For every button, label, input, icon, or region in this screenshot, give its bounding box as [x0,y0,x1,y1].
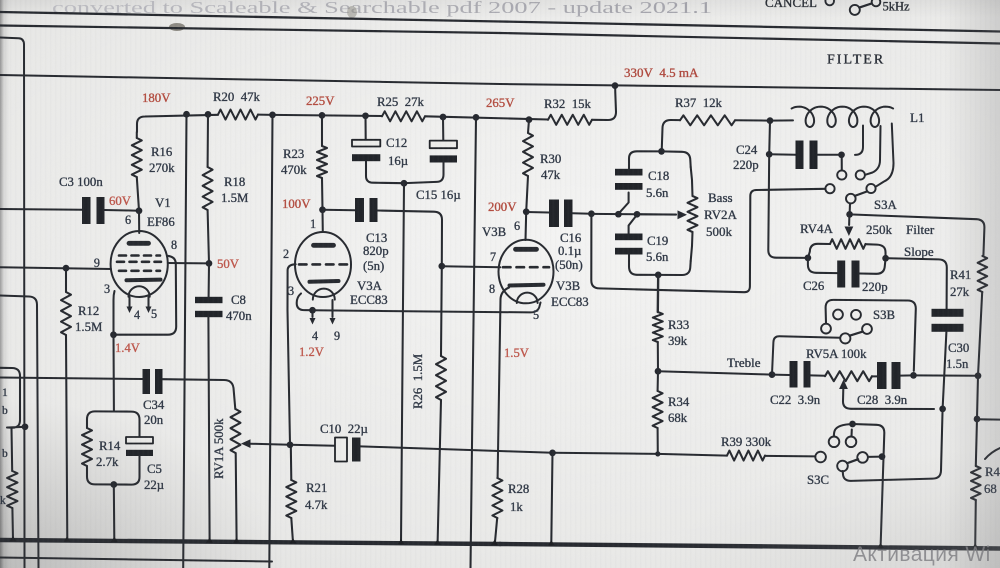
wire wiper line [591,213,676,216]
pin 4 of V3A heater [311,310,313,317]
resistor R21 [290,445,293,480]
resistor R25 [382,111,425,121]
resistor R39 [765,455,815,458]
wire C18 top [629,151,662,169]
wire S3C common arc to contact 1 [834,424,853,437]
RV2A wiper arrow [637,213,676,215]
V3B heater arc [517,293,538,303]
node 330V junction [612,82,619,89]
resistor R37 left wire [662,120,680,151]
capacitor C8 [208,263,210,297]
wire S3B pole to treble node [772,336,840,374]
switch S3B contact 1 [833,310,843,320]
wire long vertical feed x476 [471,117,477,568]
wire L1 end to S3A [876,124,893,187]
wire RV4A right to C30 [886,258,947,309]
node C16 output junction [588,210,595,217]
pin 9 of V3A heater [331,300,333,317]
V3B anode electrode [516,247,537,252]
wire wiper to C10 [251,444,291,445]
wire V3A grid drop [288,264,296,445]
wire rail to C24 [768,121,771,155]
switch S3B contact 3 [821,324,831,334]
wire R33 top [657,275,660,312]
switch S3C contact 4 [837,461,848,472]
node bass bottom junction [655,272,662,279]
node rail junction R23 [319,112,326,119]
node rail junction x186 [183,111,190,118]
node right edge junction [974,416,981,423]
node V3B grid junction [438,263,445,270]
potentiometer RV1A [231,409,241,453]
node left box junction [22,423,29,430]
capacitor C22 [790,361,798,388]
switch S2 contact b [872,0,881,6]
switch S2 bar [859,3,871,7]
tube V3A envelope [295,232,351,297]
wire S3C common to bus [853,424,885,544]
V1 grid electrodes dashed [117,256,161,271]
wire smoothing ground drop [401,183,404,543]
node rail junction x272 [269,112,276,119]
potentiometer RV5A [825,371,872,381]
wire top page line B [0,26,500,34]
wire filter feed drop [591,189,825,292]
wire S3A common to R41 [850,214,985,256]
node wiper R21 grid junction [287,441,294,448]
switch S3C bar [847,459,858,463]
node treble C22 junction [769,371,776,378]
node R34 feedback junction [655,451,660,456]
wire bass bottom to RV2A [658,261,691,275]
tube V1 EF86 envelope [111,231,168,297]
node 50V screen junction [206,260,213,267]
switch S3C pole [857,452,868,463]
wire treble line [658,371,772,374]
network R14 C5 top [87,411,140,437]
node C28 S3B junction [910,372,917,379]
switch S3A contact 2 [856,170,865,179]
node V3A cathode junction [309,307,316,314]
wire L1 tap2 to S3A contact 4 [866,126,881,175]
node C19 branch junction [634,211,641,218]
wire R41 to lower junction [977,376,978,419]
resistor R41 [978,256,988,292]
pin 1 of V3A [321,210,323,232]
node treble junction [655,368,662,375]
V3B grid electrode dashed [503,266,549,269]
wire bass top to RV2A [662,151,691,167]
resistor R34 [657,371,659,391]
capacitor C10 [290,445,335,446]
resistor R28 [492,478,502,518]
switch S3A contact 4 [866,184,875,193]
node V1 anode 60V [136,207,143,214]
wire grid junction to V3B [442,265,501,268]
wire S3C pole to common line [868,456,882,458]
wire 769 drop to RV4A [768,154,808,258]
resistor R23 [321,115,323,146]
node S3C pole junction [879,453,886,460]
wire top page line A [0,12,500,22]
node C18 branch junction [615,211,622,218]
node ground bus junctions [10,536,17,541]
capacitor C26 [808,258,837,273]
RV5A wiper arrow [839,380,848,390]
wire cathode network to ground [113,485,116,540]
node feedback branch [549,450,556,457]
switch S2 contact a [825,0,834,5]
wire V1 cathode to bias network [112,335,114,412]
resistor R12 [65,268,67,292]
pin 3 of V1 cathode wire [113,291,114,335]
capacitor C30 [932,309,964,317]
wire rail 225V section [273,115,383,116]
resistor R26 [440,266,443,356]
node rail junction C12 [362,112,369,119]
wire left vertical [0,38,25,568]
node C24 left junction [766,151,773,158]
resistor R33 [653,312,663,342]
capacitor C34 [143,369,151,394]
node C30 wiper junction [939,406,946,413]
wire feedback line [361,446,553,452]
capacitor C19 [615,234,643,241]
node C24 right junction [838,151,845,158]
node R41 junction [975,372,982,379]
capacitor C16 [526,211,549,214]
resistor R30 [528,120,529,133]
wire long vertical feed x272 [269,115,272,568]
node rail junction x476 [473,114,480,121]
wire C24 to S3A contact 1 [841,155,843,171]
smudge on line B [169,23,185,31]
node rail junction R18 [205,111,212,118]
V1 heater arc [129,286,150,297]
V1 suppressor to cathode wire [114,256,177,335]
switch S3B pole [840,333,850,343]
switch S3A pole [846,194,856,204]
wire C19 bottom [629,255,658,275]
node C12 C15 ground junction [401,180,408,187]
wire left stub corner [0,296,39,568]
capacitor C24 [769,153,795,155]
wire right edge link [977,418,1000,420]
capacitor C15 [442,117,444,141]
resistor R18 [207,114,209,167]
RV1A wiper arrow [241,439,251,448]
RV4A wiper arrow [848,214,850,225]
capacitor C3 [0,208,82,211]
resistor R20 [218,110,258,120]
wire left input box [0,368,25,428]
capacitor C13 [323,209,356,211]
pin 9 of V1 grid wire [0,267,111,269]
pin 6 of V3B [524,212,527,240]
network R14 C5 bottom [87,460,140,485]
V3B cathode electrode [510,283,544,288]
V3A cathode electrode [310,279,339,284]
node S3C common junction [849,421,856,428]
node V3B anode junction [523,208,530,215]
wire anode feed to L1 [770,119,793,121]
node V3A anode junction [319,206,326,213]
wire C30 junction to S3C contact 4 loop [843,409,943,481]
node S3A common junction [846,211,853,218]
resistor R32 [548,115,592,125]
wire long vertical feed x186 [183,114,186,568]
switch S3B contact 2 [851,310,861,320]
node L1 C24 junction [767,117,774,124]
resistor R14 [82,428,92,466]
potentiometer RV2A [688,196,698,232]
switch S2 pole [850,5,860,15]
switch S3B loop wire [826,300,916,371]
node RV4A right junction [882,255,889,262]
wire 330V bus line [0,75,500,84]
capacitor C12 [364,116,366,140]
node grid R12 junction [63,265,70,272]
capacitor C5 [126,437,153,444]
tube V3B envelope [499,240,554,304]
wire input line to C34 [0,378,143,380]
wire ground bus [0,540,500,544]
capacitor C28 [872,375,877,377]
wire S3A pole down [849,203,851,214]
pin 4 of V1 heater [128,297,130,307]
wire C28 to R41 node [914,374,979,376]
switch S3A contact 3 [825,184,834,193]
wire lower section line [0,558,272,562]
switch S3A bar [855,191,867,196]
node rail junction R30 [526,116,533,123]
wire feedback branch to bus [551,453,552,544]
node V1 cathode junction [110,331,117,338]
V3A heater arc [313,289,335,300]
wire L1 tap to S3A contact 2 [855,126,863,155]
pin 6 of V1 [138,211,140,233]
resistor R37 [680,115,735,125]
node RV4A left junction [805,255,812,262]
V1 anode electrode [129,241,149,246]
pin 3 of V3A cathode wire [297,294,313,311]
switch S3C contact 1 [829,437,840,448]
node bass top junction [658,148,665,155]
V1 cathode electrode [127,278,161,283]
resistor R43 [976,419,977,466]
V1 screen wire to 50V [168,262,209,264]
capacitor C18 [615,169,643,176]
capacitor C19 branch [629,215,637,234]
V3A anode electrode [314,243,334,248]
wire HT rail 180V-265V [137,115,218,132]
wire right edge curve stub [985,448,1000,459]
switch S3C contact 2 [846,437,857,448]
node cathode network junction [110,481,117,488]
wire C34 to RV1A [163,379,236,409]
V3A grid electrode dashed [299,263,347,266]
switch S3A contact 1 [837,170,846,179]
inductor L1 [792,107,894,127]
resistor R16 [136,132,138,138]
switch S3B bar [850,332,863,336]
potentiometer RV4A [830,239,866,249]
pin 5 of V1 heater [147,297,149,307]
wire rail 265V section [425,116,548,119]
node rail junction C15 [440,114,447,121]
capacitor C18 branch [618,193,628,214]
pin 8 of V3B cathode wire [498,288,509,479]
resistor left partial [10,428,13,471]
switch S3B contact 4 [862,324,872,334]
wire C13 to V3B grid [378,211,443,267]
wire cathode heater link [313,303,541,313]
switch S3C contact 3 [815,452,826,463]
